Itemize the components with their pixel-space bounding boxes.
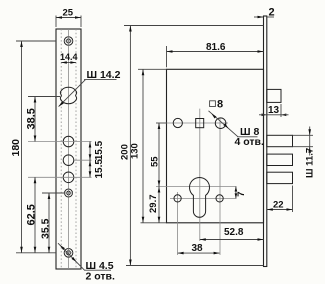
dim 14.4 arrow left (61, 61, 67, 64)
dim 11.7 arrow top (308, 129, 311, 135)
leader Ш8 arrowhead upper (211, 113, 216, 118)
dim 81.6 arrow right (258, 50, 264, 53)
top screw hole (64, 37, 73, 46)
dim 15.5 tick middle up (89, 154, 92, 160)
dim 15.5 arrow bottom (89, 171, 92, 177)
dim 38.5 arrow bottom (34, 136, 37, 142)
dim 35.5 line (48, 193, 50, 253)
dim 200 line (129, 26, 131, 266)
label square glyph (210, 101, 216, 107)
svg-text:4 отв.: 4 отв. (235, 136, 265, 148)
dim 13 extension left (266, 104, 268, 117)
extension top for 200 (124, 25, 264, 27)
extension body top for 130 (138, 68, 167, 70)
dim 81.6 line (167, 51, 264, 53)
construction line vertical through square (199, 109, 201, 241)
dotted groove line left (60, 29, 62, 269)
dim 200 arrow top (129, 26, 132, 32)
dim 15.5 extension middle (74, 159, 92, 161)
extension body bottom for 130 (141, 222, 167, 224)
leader arrowhead down-right (71, 257, 76, 262)
body outline (167, 69, 264, 223)
construction line horizontal through handle holes (167, 122, 229, 124)
dim 25 extension right (80, 16, 82, 28)
dim 25 arrow right (75, 16, 81, 19)
svg-text:15.5: 15.5 (94, 159, 105, 179)
cylinder fixing hole right (216, 195, 223, 202)
handle square (196, 119, 204, 128)
latch bolt (267, 89, 281, 102)
leader line to Ш 14.2 (59, 80, 86, 107)
svg-text:52.8: 52.8 (224, 227, 244, 238)
dim 180 arrow top (20, 41, 23, 47)
dim 52.8 line (200, 239, 264, 241)
dim 15.5 tick middle down (89, 160, 92, 166)
dim 13 arrow tails (259, 114, 267, 116)
dim 29.7 arrow bottom (158, 217, 161, 223)
leader line Ш 8 (209, 111, 239, 137)
leader arrowhead (59, 102, 64, 107)
label Ш 8 underline (237, 136, 257, 138)
dim 22 arrow left (267, 208, 273, 211)
svg-text:180: 180 (10, 139, 22, 157)
dim 2 line left (254, 16, 264, 18)
dim 22 line (267, 209, 293, 211)
deadbolt circle 1 (63, 136, 74, 147)
deadbolt 2 (267, 154, 293, 165)
svg-text:15.5: 15.5 (94, 140, 105, 160)
dim 81.6 arrow left (167, 50, 173, 53)
euro cylinder profile (190, 177, 210, 217)
dim 7 arrow top (235, 187, 238, 192)
svg-text:13: 13 (268, 105, 280, 116)
dim 11.7 arrow bottom (308, 147, 311, 153)
dim 180 bottom extension (16, 252, 56, 254)
dim 38.5 extension bottom (28, 141, 92, 143)
dim 13 line (267, 114, 281, 116)
dim 35.5 arrow bottom (48, 247, 51, 253)
bottom screw hole (64, 248, 73, 257)
dim 62.5 line (34, 177, 36, 253)
svg-text:130: 130 (130, 143, 141, 159)
svg-text:8: 8 (217, 98, 223, 110)
dim 35.5 arrow top (48, 193, 51, 199)
right hole in body (215, 118, 226, 129)
dim 15.5 line (89, 142, 91, 178)
svg-text:38: 38 (192, 243, 204, 254)
dim 38.5 arrow top (34, 97, 37, 103)
cylinder profile hole Ш14.2 (60, 87, 76, 103)
construction line vertical through left small hole (177, 192, 179, 255)
deadbolt 3 (267, 172, 293, 183)
dim 55 29.7 line (158, 123, 160, 223)
svg-text:38.5: 38.5 (26, 108, 38, 129)
dim 25 arrow left (56, 16, 62, 19)
dotted groove line right (75, 29, 77, 269)
left hole in body (173, 118, 182, 127)
label Ш 14.2 underline (84, 79, 117, 81)
dim 81.6 extension left (166, 46, 168, 67)
dim 2 line right (267, 16, 274, 18)
dim 38.5 line (34, 97, 36, 142)
middle screw hole (64, 189, 73, 198)
dim 62.5 arrow top (34, 177, 37, 183)
svg-text:81.6: 81.6 (206, 42, 226, 53)
construction line left of body for 55 dim (156, 122, 167, 124)
svg-text:Ш 11.7: Ш 11.7 (305, 148, 316, 178)
dim 22 arrow right (287, 208, 293, 211)
dim 22 extension right (292, 186, 294, 213)
dim 11.7 line (309, 127, 311, 156)
dim 130 line (142, 69, 144, 223)
dim 2 arrow (258, 16, 264, 19)
dim 38.5 extension top (28, 96, 60, 98)
cylinder fixing hole left (174, 195, 181, 202)
dim 7 line (235, 187, 237, 199)
svg-text:2: 2 (269, 7, 275, 19)
svg-text:14.4: 14.4 (60, 52, 78, 62)
dim 38 line (178, 252, 220, 254)
leader line to Ш 4.5 (58, 243, 85, 270)
dim 15.5 arrow top (89, 142, 92, 148)
dim 29.7 arrow top (158, 187, 161, 193)
dim 35.5 extension top (42, 192, 64, 194)
construction line vertical through right hole (219, 118, 221, 256)
dim 200 arrow bottom (129, 260, 132, 266)
dim 62.5 extension top (28, 176, 92, 178)
svg-text:22: 22 (273, 199, 284, 210)
deadbolt circle 2 (63, 155, 74, 166)
svg-text:62.5: 62.5 (26, 204, 38, 225)
dim 13 arrow right (281, 114, 286, 117)
extension bottom strip for 200 (126, 265, 264, 267)
dim 55 arrow bottom (158, 181, 161, 187)
svg-text:55: 55 (150, 156, 161, 167)
dim 14.4 arrow right (70, 61, 76, 64)
dim 180 line (21, 41, 23, 253)
svg-text:29.7: 29.7 (148, 195, 159, 214)
deadbolt circle 3 (63, 172, 74, 183)
plate centerline (68, 29, 70, 269)
dim 52.8 arrow left (200, 238, 206, 241)
dim 38 arrow left (178, 252, 184, 255)
construction line cylinder level (156, 186, 237, 188)
dim 130 arrow bottom (142, 217, 145, 223)
dim 38 arrow right (214, 252, 220, 255)
svg-text:7: 7 (236, 192, 247, 197)
dim 180 top extension (16, 40, 56, 42)
leader arrowhead up-left (60, 245, 65, 250)
dim 13 extension right (280, 104, 282, 117)
dim 62.5 arrow bottom (34, 247, 37, 253)
dim 14.4 line (61, 62, 76, 64)
svg-text:2 отв.: 2 отв. (86, 271, 116, 283)
svg-text:35.5: 35.5 (39, 218, 51, 239)
dim 13 arrow left (262, 114, 267, 117)
dim 11.7 extension bottom (293, 146, 314, 148)
dim 130 arrow top (142, 69, 145, 75)
svg-text:Ш 14.2: Ш 14.2 (87, 69, 121, 81)
dim 25 extension left (55, 16, 57, 28)
dim 11.7 extension top (293, 134, 314, 136)
dim 25 line (56, 17, 81, 19)
dim 7 arrow bottom (235, 193, 238, 198)
svg-text:25: 25 (63, 8, 74, 19)
dim 52.8 arrow right (258, 238, 264, 241)
dim 55 arrow top (158, 123, 161, 129)
deadbolt 1 (267, 135, 293, 146)
construction line small holes level (170, 197, 237, 199)
label Ш 4.5 underline (84, 269, 111, 271)
leader Ш8 arrowhead lower (223, 123, 228, 128)
dim 180 arrow bottom (20, 247, 23, 253)
faceplate strip (264, 16, 267, 267)
plate outline (56, 29, 81, 269)
